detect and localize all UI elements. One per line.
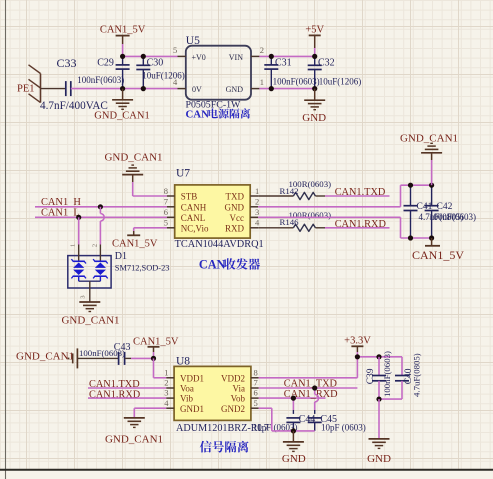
power port +5V xyxy=(305,25,324,57)
svg-text:2: 2 xyxy=(255,197,259,207)
wire xyxy=(88,387,166,389)
svg-text:D1: D1 xyxy=(115,251,127,262)
power module U5 xyxy=(173,35,264,111)
wire xyxy=(259,55,314,57)
svg-text:C31: C31 xyxy=(275,57,292,68)
junction xyxy=(376,397,381,402)
capacitor C32 xyxy=(308,56,362,88)
svg-text:1: 1 xyxy=(164,367,168,377)
svg-text:CAN1_5V: CAN1_5V xyxy=(412,248,464,262)
svg-text:2: 2 xyxy=(164,378,168,388)
svg-text:2: 2 xyxy=(260,45,264,55)
wire CANH xyxy=(35,206,167,208)
ground GND_CAN1 xyxy=(94,89,149,122)
svg-text:+V0: +V0 xyxy=(192,53,206,62)
capacitor C42 xyxy=(425,185,476,238)
junction xyxy=(408,235,413,240)
svg-text:CAN: CAN xyxy=(186,109,210,121)
svg-text:+3.3V: +3.3V xyxy=(344,336,371,347)
net label CAN1.TXD xyxy=(325,187,390,198)
svg-text:STB: STB xyxy=(181,192,198,202)
svg-text:1: 1 xyxy=(260,77,264,87)
capacitor C39 xyxy=(366,351,392,399)
svg-text:VDD2: VDD2 xyxy=(221,374,245,384)
wire xyxy=(88,397,166,399)
junction xyxy=(376,354,381,359)
wire CANL xyxy=(35,216,167,218)
capacitor C44 xyxy=(253,398,315,432)
svg-text:R142: R142 xyxy=(280,186,299,196)
svg-text:GND: GND xyxy=(226,85,244,94)
svg-text:3: 3 xyxy=(255,207,259,217)
svg-text:3: 3 xyxy=(80,295,87,298)
svg-text:CAN1.TXD: CAN1.TXD xyxy=(335,187,386,198)
junction xyxy=(312,54,317,59)
svg-text:5: 5 xyxy=(173,45,177,55)
svg-text:8: 8 xyxy=(164,186,168,196)
svg-text:100nF(0603): 100nF(0603) xyxy=(382,351,392,397)
junction xyxy=(269,86,274,91)
junction xyxy=(141,54,146,59)
ground GND xyxy=(367,439,391,465)
svg-text:10uF(1206): 10uF(1206) xyxy=(319,77,362,87)
svg-text:100nF(0603): 100nF(0603) xyxy=(273,77,320,87)
junction xyxy=(269,54,274,59)
svg-text:U5: U5 xyxy=(186,35,200,47)
capacitor C29 xyxy=(77,56,129,88)
wire xyxy=(154,358,167,377)
net label CAN1_L xyxy=(41,208,80,219)
CAN transceiver U7 xyxy=(164,168,264,250)
svg-text:TXD: TXD xyxy=(226,192,245,202)
svg-text:7: 7 xyxy=(254,378,258,388)
svg-text:4: 4 xyxy=(173,77,178,87)
digital isolator U8 xyxy=(164,355,269,434)
junction xyxy=(429,183,434,188)
svg-text:GND1: GND1 xyxy=(180,404,204,414)
junction xyxy=(120,86,125,91)
svg-text:Vcc: Vcc xyxy=(230,213,245,223)
svg-text:GND_CAN1: GND_CAN1 xyxy=(104,151,162,163)
ground GND xyxy=(302,89,326,124)
junction xyxy=(151,356,156,361)
wire xyxy=(378,399,380,439)
svg-text:NC,Vio: NC,Vio xyxy=(181,223,209,233)
wire xyxy=(258,185,431,207)
resistor R146 xyxy=(258,210,331,231)
svg-text:C33: C33 xyxy=(57,56,77,70)
wire xyxy=(259,357,358,378)
svg-text:PE1: PE1 xyxy=(17,84,35,95)
svg-text:R146: R146 xyxy=(280,217,300,227)
svg-text:1: 1 xyxy=(255,186,259,196)
svg-text:CAN1_5V: CAN1_5V xyxy=(112,239,158,250)
svg-text:10pF (0603): 10pF (0603) xyxy=(321,423,366,433)
svg-text:RXD: RXD xyxy=(225,223,245,233)
svg-text:100nF(0603): 100nF(0603) xyxy=(429,212,476,222)
label CAN power isolation (Chinese) xyxy=(186,108,251,120)
junction xyxy=(141,86,146,91)
svg-text:Voa: Voa xyxy=(180,384,194,394)
svg-text:2: 2 xyxy=(92,244,99,247)
svg-text:GND: GND xyxy=(302,112,326,124)
svg-text:5: 5 xyxy=(254,398,258,408)
capacitor C31 xyxy=(264,56,319,88)
wire xyxy=(134,408,166,418)
svg-text:U7: U7 xyxy=(176,168,190,180)
junction xyxy=(291,396,296,401)
svg-text:VDD1: VDD1 xyxy=(180,374,204,384)
label signal isolation (Chinese) xyxy=(200,441,249,453)
svg-text:GND: GND xyxy=(282,453,306,465)
svg-text:100nF(0603): 100nF(0603) xyxy=(77,75,124,85)
ground GND_CAN1 xyxy=(105,418,163,446)
svg-text:1: 1 xyxy=(70,244,77,247)
wire xyxy=(258,217,431,238)
power port CAN1_5V xyxy=(100,25,146,57)
net label CAN1.RXD xyxy=(325,219,390,230)
label CAN transceiver (Chinese) xyxy=(199,258,260,272)
svg-text:3: 3 xyxy=(164,388,168,398)
junction xyxy=(312,86,317,91)
power port +3.3V xyxy=(344,336,371,357)
capacitor C43 xyxy=(77,342,131,365)
junction xyxy=(408,183,413,188)
svg-text:GND2: GND2 xyxy=(221,404,245,414)
capacitor C40 xyxy=(379,353,422,399)
ground GND xyxy=(282,431,306,465)
svg-text:TCAN1044AVDRQ1: TCAN1044AVDRQ1 xyxy=(175,239,264,250)
svg-text:GND_CAN1: GND_CAN1 xyxy=(16,350,74,362)
capacitor C45 xyxy=(308,388,366,433)
svg-text:CAN1.RXD: CAN1.RXD xyxy=(335,219,387,230)
wire xyxy=(357,357,402,376)
power port CAN1_5V xyxy=(412,238,464,262)
svg-text:0V: 0V xyxy=(192,85,202,94)
svg-text:CANH: CANH xyxy=(181,202,207,212)
wire xyxy=(78,217,80,244)
svg-text:VIN: VIN xyxy=(229,53,243,62)
wire xyxy=(131,357,154,359)
junction xyxy=(120,54,125,59)
junction xyxy=(291,428,296,433)
svg-text:CAN1_5V: CAN1_5V xyxy=(100,25,146,36)
svg-text:C30: C30 xyxy=(147,58,164,69)
svg-text:Vib: Vib xyxy=(180,394,193,404)
TVS diode D1 xyxy=(68,244,170,302)
ground GND_CAN1 xyxy=(400,133,458,186)
wire xyxy=(123,55,178,57)
svg-text:GND: GND xyxy=(367,453,391,465)
svg-text:C39: C39 xyxy=(366,368,376,384)
wire xyxy=(41,88,66,90)
capacitor C33 xyxy=(40,56,108,112)
svg-text:10uF(1206): 10uF(1206) xyxy=(142,71,185,81)
ground GND_CAN1 xyxy=(61,302,119,326)
junction xyxy=(98,204,103,209)
svg-text:5: 5 xyxy=(164,218,168,228)
ground GND_CAN1 xyxy=(104,151,166,196)
svg-text:C29: C29 xyxy=(97,57,114,68)
power port CAN1_5V xyxy=(112,228,167,250)
svg-text:4: 4 xyxy=(164,398,169,408)
svg-text:GND_CAN1: GND_CAN1 xyxy=(400,133,458,145)
capacitor C41 xyxy=(404,185,464,238)
net label CAN1_TXD xyxy=(259,379,358,390)
net label CAN1_H xyxy=(41,197,81,208)
net label CAN1.TXD xyxy=(89,379,140,390)
svg-text:SM712,SOD-23: SM712,SOD-23 xyxy=(115,263,170,272)
junction xyxy=(429,235,434,240)
svg-text:4.7uF(0805): 4.7uF(0805) xyxy=(412,353,422,397)
svg-text:GND: GND xyxy=(225,202,245,212)
svg-text:8: 8 xyxy=(254,367,258,377)
wire xyxy=(100,207,104,245)
svg-text:+5V: +5V xyxy=(305,25,324,36)
svg-text:Vob: Vob xyxy=(231,394,246,404)
net label CAN1_RXD xyxy=(259,389,338,400)
svg-text:6: 6 xyxy=(164,207,168,217)
svg-text:Via: Via xyxy=(233,384,245,394)
svg-text:7: 7 xyxy=(164,197,168,207)
net label CAN1.RXD xyxy=(89,389,141,400)
svg-text:U8: U8 xyxy=(176,355,190,367)
power port GND_CAN1 xyxy=(16,348,77,368)
junction xyxy=(355,354,360,359)
resistor R142 xyxy=(258,179,331,200)
svg-text:CANL: CANL xyxy=(181,213,206,223)
svg-text:C42: C42 xyxy=(437,202,453,212)
svg-text:GND_CAN1: GND_CAN1 xyxy=(94,111,149,122)
wire xyxy=(71,88,178,90)
wire xyxy=(259,408,315,431)
svg-text:C32: C32 xyxy=(318,58,335,69)
power port CAN1_5V xyxy=(133,337,179,359)
capacitor C30 xyxy=(136,56,185,88)
svg-text:GND_CAN1: GND_CAN1 xyxy=(105,434,163,446)
connector PE1 xyxy=(17,65,41,103)
svg-text:100nF(0603): 100nF(0603) xyxy=(79,348,125,358)
svg-text:CAN: CAN xyxy=(199,258,226,272)
junction xyxy=(76,215,81,220)
wire xyxy=(259,88,314,90)
svg-text:6: 6 xyxy=(254,388,258,398)
svg-text:GND_CAN1: GND_CAN1 xyxy=(61,314,119,326)
junction xyxy=(312,385,317,390)
